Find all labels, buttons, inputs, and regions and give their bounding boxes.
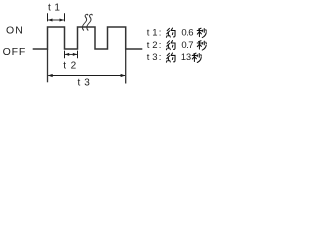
node t1 arrow — [48, 19, 64, 21]
svg-text:OFF: OFF — [3, 46, 27, 58]
node t2 arrow — [65, 53, 77, 55]
node t1 ticks — [48, 13, 65, 21]
wire break squiggle — [81, 14, 92, 30]
node t2 ticks — [65, 51, 78, 59]
svg-text:0.6: 0.6 — [181, 27, 193, 38]
svg-text::: : — [159, 27, 162, 38]
svg-text:3: 3 — [152, 52, 157, 63]
legend line t2 — [147, 40, 207, 51]
svg-text::: : — [159, 40, 162, 51]
svg-text:1: 1 — [152, 27, 157, 38]
svg-text:t: t — [78, 77, 81, 88]
svg-text::: : — [159, 52, 162, 63]
wire t3 right extension — [125, 49, 127, 84]
svg-text:13: 13 — [181, 52, 191, 62]
wire waveform — [33, 27, 143, 49]
svg-text:t: t — [63, 61, 66, 72]
legend line t1 — [147, 27, 207, 38]
svg-text:t: t — [147, 27, 150, 38]
svg-text:t: t — [147, 52, 150, 63]
svg-text:0.7: 0.7 — [181, 40, 193, 51]
node t3 arrow — [48, 75, 125, 77]
svg-text:ON: ON — [6, 25, 24, 37]
svg-text:1: 1 — [54, 3, 60, 14]
svg-text:3: 3 — [84, 77, 90, 88]
wire t3 left extension — [47, 49, 49, 82]
svg-text:2: 2 — [71, 61, 77, 72]
svg-text:t: t — [48, 3, 51, 14]
legend line t3 — [147, 52, 202, 63]
svg-text:2: 2 — [152, 40, 157, 51]
svg-text:t: t — [147, 40, 150, 51]
